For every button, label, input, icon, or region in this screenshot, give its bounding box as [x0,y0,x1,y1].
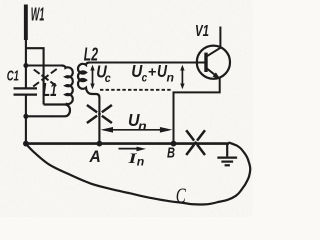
svg-text:n: n [138,119,147,133]
node dot bottom left [23,141,29,147]
svg-text:A: A [89,148,101,166]
label Uc+Un [131,61,174,85]
svg-text:c: c [105,73,112,85]
svg-text:n: n [167,72,175,84]
transistor V1 [174,27,230,144]
antenna W1 [24,5,28,89]
current In vector arrow and label [119,147,147,152]
node A [97,141,103,147]
ground [217,144,237,166]
inductor L1 [26,66,73,117]
dashed reference line [100,89,172,91]
wire L2 bottom to node A [98,97,100,144]
arrow Un between A and B [101,127,173,133]
svg-text:V1: V1 [195,23,209,40]
svg-text:+: + [148,65,157,80]
wire C1 top to L1 [26,64,62,66]
svg-text:C: C [176,184,187,208]
noise-source cross at L1 (dashed X) [33,69,57,87]
capacitor C1 [14,88,38,143]
noise-source cross right of B [186,130,205,155]
wire L2 top to transistor base [89,61,206,63]
svg-text:W1: W1 [31,3,45,24]
svg-text:L1: L1 [43,79,57,100]
capacitance loop curve C [26,142,250,204]
wire antenna branch to L1 top [26,48,44,104]
svg-text:B: B [167,145,175,162]
node dot left [23,63,28,68]
inductor L2 [78,63,99,98]
node B [171,141,177,147]
label Uc [96,62,111,86]
label Un [128,110,147,133]
arrow Uc [90,65,94,89]
arrow Uc+Un [180,65,184,89]
svg-text:c: c [142,72,148,84]
svg-text:C1: C1 [7,68,19,85]
main bottom wire [26,142,229,145]
noise-source cross above node A [87,105,112,123]
node dot L1 return [23,114,28,119]
svg-text:n: n [137,155,145,169]
